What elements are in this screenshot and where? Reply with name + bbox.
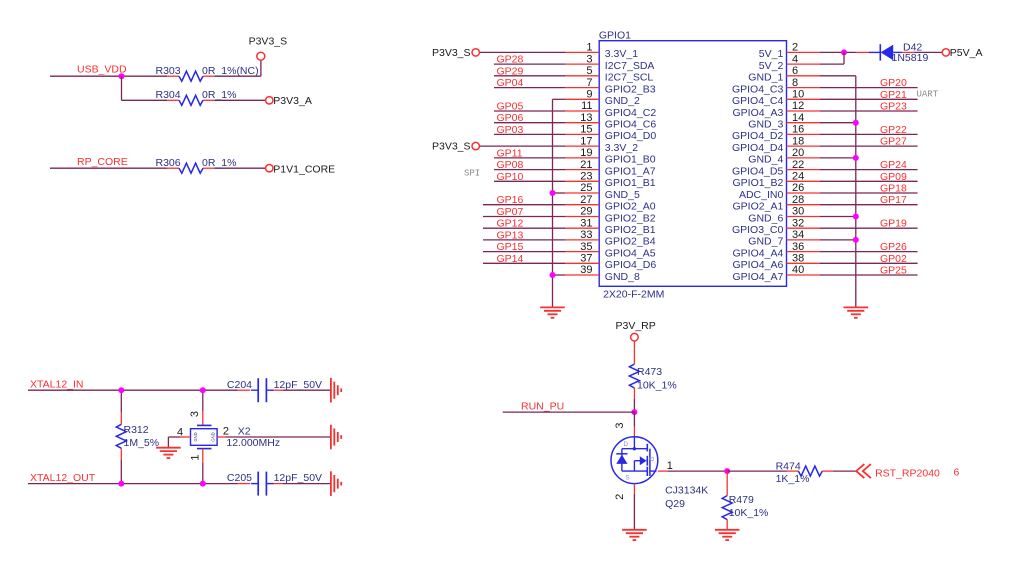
- svg-text:GPIO4_D5: GPIO4_D5: [732, 165, 784, 177]
- svg-text:P3V3_S: P3V3_S: [432, 141, 471, 153]
- svg-text:GPIO2_B4: GPIO2_B4: [605, 236, 656, 248]
- svg-text:GP28: GP28: [497, 54, 524, 66]
- svg-text:GND_7: GND_7: [748, 236, 783, 248]
- svg-text:21: 21: [580, 159, 592, 171]
- svg-text:GP22: GP22: [880, 124, 907, 136]
- svg-text:12: 12: [792, 100, 804, 112]
- svg-text:25: 25: [580, 182, 592, 194]
- svg-text:GPIO4_D4: GPIO4_D4: [732, 142, 784, 154]
- svg-text:GPIO2_B2: GPIO2_B2: [605, 212, 656, 224]
- svg-text:R473: R473: [637, 366, 662, 378]
- svg-text:GND_5: GND_5: [605, 189, 640, 201]
- svg-text:GP29: GP29: [497, 65, 524, 77]
- svg-text:GP19: GP19: [880, 218, 907, 230]
- svg-text:GP08: GP08: [497, 159, 524, 171]
- svg-text:GP12: GP12: [497, 218, 524, 230]
- svg-text:15: 15: [580, 124, 592, 136]
- svg-text:C204: C204: [227, 379, 252, 391]
- svg-text:X2: X2: [238, 425, 251, 437]
- svg-text:GP25: GP25: [880, 265, 907, 277]
- svg-text:1: 1: [190, 454, 202, 460]
- svg-text:0R_1%: 0R_1%: [202, 89, 236, 101]
- svg-text:GP03: GP03: [497, 124, 524, 136]
- svg-text:35: 35: [580, 241, 592, 253]
- svg-text:GPIO2_A0: GPIO2_A0: [605, 201, 656, 213]
- svg-text:GP20: GP20: [880, 77, 907, 89]
- svg-text:10K_1%: 10K_1%: [637, 380, 677, 392]
- svg-text:GPIO2_B1: GPIO2_B1: [605, 224, 656, 236]
- svg-text:GP04: GP04: [497, 77, 524, 89]
- svg-text:31: 31: [580, 217, 592, 229]
- svg-text:GP02: GP02: [880, 253, 907, 265]
- svg-text:1K_1%: 1K_1%: [776, 473, 810, 485]
- svg-text:12pF_50V: 12pF_50V: [274, 472, 322, 484]
- svg-text:CJ3134K: CJ3134K: [665, 485, 708, 497]
- svg-text:27: 27: [580, 194, 592, 206]
- svg-text:GND_6: GND_6: [748, 212, 783, 224]
- svg-text:0R_1%: 0R_1%: [202, 157, 236, 169]
- svg-text:GPIO4_C4: GPIO4_C4: [732, 95, 784, 107]
- svg-text:30: 30: [792, 206, 804, 218]
- svg-text:5V_2: 5V_2: [759, 60, 784, 72]
- svg-text:P5V_A: P5V_A: [950, 47, 983, 59]
- svg-text:2: 2: [223, 425, 229, 437]
- svg-text:G: G: [649, 456, 656, 461]
- svg-text:32: 32: [792, 217, 804, 229]
- svg-text:12.000MHz: 12.000MHz: [226, 437, 280, 449]
- svg-text:22: 22: [792, 159, 804, 171]
- svg-text:8: 8: [792, 77, 798, 89]
- svg-text:GP18: GP18: [880, 183, 907, 195]
- svg-text:GPIO4_C3: GPIO4_C3: [732, 83, 784, 95]
- svg-text:5: 5: [586, 65, 592, 77]
- svg-text:GND_4: GND_4: [748, 154, 783, 166]
- svg-text:Q29: Q29: [665, 498, 685, 510]
- svg-text:GPIO4_A3: GPIO4_A3: [733, 107, 784, 119]
- svg-text:40: 40: [792, 264, 804, 276]
- svg-text:GP09: GP09: [880, 171, 907, 183]
- svg-text:GP10: GP10: [497, 171, 524, 183]
- svg-text:GP11: GP11: [497, 147, 523, 159]
- svg-text:10K_1%: 10K_1%: [729, 507, 769, 519]
- svg-text:USB_VDD: USB_VDD: [77, 64, 127, 76]
- svg-text:1M_5%: 1M_5%: [124, 437, 160, 449]
- svg-text:13: 13: [580, 112, 592, 124]
- svg-text:9: 9: [586, 89, 592, 101]
- svg-text:16: 16: [792, 124, 804, 136]
- svg-text:GP23: GP23: [880, 101, 907, 113]
- svg-text:UART: UART: [917, 89, 939, 99]
- svg-text:36: 36: [792, 241, 804, 253]
- svg-text:RST_RP2040: RST_RP2040: [875, 467, 940, 479]
- svg-text:ADC_IN0: ADC_IN0: [739, 189, 784, 201]
- svg-text:3: 3: [189, 411, 201, 417]
- svg-text:6: 6: [792, 65, 798, 77]
- svg-text:P3V_RP: P3V_RP: [616, 320, 656, 332]
- svg-text:C205: C205: [227, 472, 252, 484]
- svg-text:RUN_PU: RUN_PU: [521, 401, 564, 413]
- svg-text:GND_3: GND_3: [748, 119, 783, 131]
- svg-text:GP21: GP21: [880, 89, 907, 101]
- svg-text:GND: GND: [193, 432, 198, 441]
- svg-text:GP15: GP15: [497, 241, 524, 253]
- svg-text:3.3V_2: 3.3V_2: [605, 142, 638, 154]
- svg-text:6: 6: [954, 467, 960, 479]
- svg-text:GP14: GP14: [497, 253, 524, 265]
- svg-text:P3V3_A: P3V3_A: [273, 95, 312, 107]
- svg-text:14: 14: [792, 112, 804, 124]
- svg-text:3: 3: [586, 53, 592, 65]
- svg-text:R306: R306: [156, 157, 181, 169]
- svg-text:GND_1: GND_1: [748, 72, 783, 84]
- svg-text:GPIO3_C0: GPIO3_C0: [732, 224, 784, 236]
- svg-text:26: 26: [792, 182, 804, 194]
- svg-text:R312: R312: [124, 424, 149, 436]
- svg-text:10: 10: [792, 89, 804, 101]
- svg-text:GND_8: GND_8: [605, 271, 640, 283]
- svg-text:GPIO4_C2: GPIO4_C2: [605, 107, 657, 119]
- svg-text:18: 18: [792, 135, 804, 147]
- svg-text:2: 2: [792, 42, 798, 54]
- svg-text:GP07: GP07: [497, 206, 524, 218]
- svg-text:GP05: GP05: [497, 101, 524, 113]
- svg-text:D: D: [624, 441, 629, 448]
- svg-text:GPIO4_A4: GPIO4_A4: [733, 247, 784, 259]
- svg-text:GPIO1_B1: GPIO1_B1: [605, 177, 656, 189]
- svg-text:GP06: GP06: [497, 112, 524, 124]
- svg-text:2: 2: [614, 494, 626, 500]
- svg-text:39: 39: [580, 264, 592, 276]
- svg-text:R474: R474: [776, 460, 801, 472]
- svg-text:GPIO4_D6: GPIO4_D6: [605, 259, 657, 271]
- svg-text:GP13: GP13: [497, 229, 524, 241]
- svg-text:28: 28: [792, 194, 804, 206]
- svg-text:11: 11: [581, 100, 592, 112]
- svg-text:3: 3: [614, 423, 626, 429]
- svg-text:P3V3_S: P3V3_S: [432, 47, 471, 59]
- svg-text:17: 17: [580, 135, 592, 147]
- svg-text:SPI: SPI: [464, 169, 480, 179]
- svg-text:GPIO4_D0: GPIO4_D0: [605, 130, 657, 142]
- svg-text:XTAL12_OUT: XTAL12_OUT: [30, 472, 96, 484]
- svg-text:GPIO1_B2: GPIO1_B2: [733, 177, 784, 189]
- svg-text:29: 29: [580, 206, 592, 218]
- svg-text:GP27: GP27: [880, 136, 907, 148]
- svg-text:GP17: GP17: [880, 194, 907, 206]
- svg-text:S: S: [626, 475, 630, 482]
- svg-text:P1V1_CORE: P1V1_CORE: [273, 164, 335, 176]
- svg-text:R479: R479: [729, 494, 754, 506]
- svg-text:GPIO4_A5: GPIO4_A5: [605, 247, 656, 259]
- svg-text:23: 23: [580, 171, 592, 183]
- svg-text:RP_CORE: RP_CORE: [77, 156, 128, 168]
- svg-text:GPIO2_A1: GPIO2_A1: [733, 201, 784, 213]
- svg-text:XTAL12_IN: XTAL12_IN: [30, 379, 84, 391]
- svg-text:19: 19: [580, 147, 592, 159]
- svg-text:I2C7_SCL: I2C7_SCL: [605, 72, 654, 84]
- svg-text:I2C7_SDA: I2C7_SDA: [605, 60, 655, 72]
- svg-text:3.3V_1: 3.3V_1: [605, 48, 638, 60]
- svg-text:12pF_50V: 12pF_50V: [274, 379, 322, 391]
- svg-text:GPIO4_C6: GPIO4_C6: [605, 119, 657, 131]
- svg-text:GP16: GP16: [497, 194, 524, 206]
- svg-text:5V_1: 5V_1: [759, 48, 784, 60]
- svg-text:GPIO1_B0: GPIO1_B0: [605, 154, 656, 166]
- svg-text:GP26: GP26: [880, 241, 907, 253]
- svg-text:GPIO4_D2: GPIO4_D2: [732, 130, 784, 142]
- svg-text:1: 1: [586, 42, 592, 54]
- svg-text:1: 1: [667, 460, 673, 472]
- svg-text:GPIO2_B3: GPIO2_B3: [605, 83, 656, 95]
- svg-text:7: 7: [586, 77, 592, 89]
- svg-text:GPIO1_A7: GPIO1_A7: [605, 165, 656, 177]
- svg-text:GPIO1: GPIO1: [599, 29, 631, 41]
- svg-text:37: 37: [580, 253, 592, 265]
- svg-text:33: 33: [580, 229, 592, 241]
- svg-text:GND: GND: [211, 432, 216, 441]
- svg-text:R304: R304: [156, 89, 181, 101]
- svg-text:4: 4: [177, 427, 183, 439]
- svg-text:2X20-F-2MM: 2X20-F-2MM: [603, 288, 664, 300]
- svg-text:38: 38: [792, 253, 804, 265]
- svg-text:34: 34: [792, 229, 804, 241]
- svg-text:P3V3_S: P3V3_S: [249, 36, 288, 48]
- svg-text:GND_2: GND_2: [605, 95, 640, 107]
- svg-text:GP24: GP24: [880, 159, 907, 171]
- svg-text:4: 4: [792, 53, 798, 65]
- svg-text:1N5819: 1N5819: [892, 52, 929, 64]
- svg-text:GPIO4_A7: GPIO4_A7: [733, 271, 784, 283]
- svg-text:0R_1%(NC): 0R_1%(NC): [202, 65, 259, 77]
- svg-text:20: 20: [792, 147, 804, 159]
- svg-text:GPIO4_A6: GPIO4_A6: [733, 259, 784, 271]
- svg-text:24: 24: [792, 171, 804, 183]
- svg-text:R303: R303: [156, 65, 181, 77]
